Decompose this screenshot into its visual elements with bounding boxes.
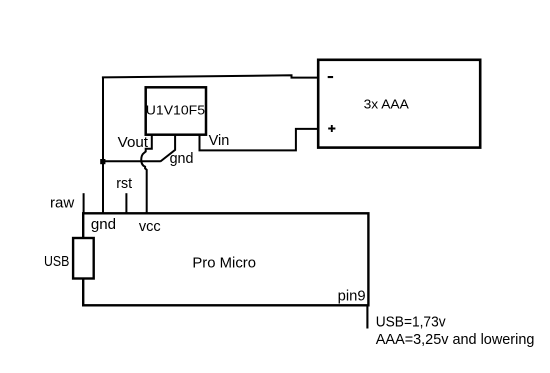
svg-text:raw: raw [50,196,75,212]
node gnd junction [100,159,105,164]
battery negative terminal - [328,76,333,78]
pin rst stub [125,193,127,214]
svg-text:rst: rst [116,176,132,192]
battery BT1 3x AAA box [318,60,480,148]
wire regulator gnd pin diagonal [161,135,176,162]
wire gnd junction to regulator gnd (horizontal) [104,160,161,162]
svg-text:AAA=3,25v and lowering: AAA=3,25v and lowering [376,332,535,348]
battery positive terminal + [328,125,335,132]
svg-text:pin9: pin9 [338,289,366,305]
USB connector box [73,238,94,279]
svg-text:Vin: Vin [209,133,230,149]
svg-text:3x AAA: 3x AAA [364,96,410,111]
svg-text:vcc: vcc [139,219,161,235]
wire regulator Vin to battery plus [200,129,320,151]
svg-text:Pro Micro: Pro Micro [192,255,256,271]
svg-text:USB=1,73v: USB=1,73v [376,315,447,331]
svg-text:gnd: gnd [91,217,116,233]
svg-text:gnd: gnd [170,151,194,167]
regulator U1 U1V10F5 box [146,87,206,134]
pin pin9 stub [366,306,368,328]
wire gnd rail vertical [102,77,104,214]
svg-text:U1V10F5: U1V10F5 [146,103,205,118]
svg-text:USB: USB [44,254,69,270]
svg-text:Vout: Vout [118,135,148,151]
wire battery minus to gnd rail (top horizontal) [102,75,320,77]
wire regulator Vout to Pro Micro vcc (hop over gnd wire) [141,135,152,215]
pin raw stub [83,193,85,214]
Pro Micro module box [83,213,368,305]
